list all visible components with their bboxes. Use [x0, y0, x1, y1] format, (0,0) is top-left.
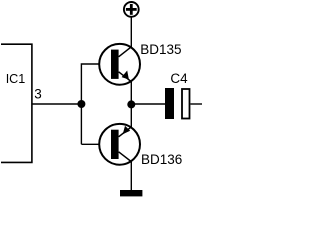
wire : BD135 emitter down to output node and BD136: [130, 81, 132, 128]
wire : +V to BD135 collector: [130, 17, 132, 48]
wire : junction up to BD135 base: [81, 64, 98, 144]
transistor Q2 BD136 (PNP): [99, 124, 140, 165]
power +V symbol: [124, 2, 139, 17]
wire : junction down to BD136 base: [81, 143, 98, 145]
transistor Q1 BD135 (NPN): [99, 44, 140, 85]
wire : IC1 pin 3 to base junction: [32, 103, 82, 105]
capacitor C4 (polarized): [165, 88, 190, 119]
IC IC1 (box, open left edge): [1, 44, 32, 162]
svg-text:3: 3: [34, 86, 42, 101]
svg-text:BD136: BD136: [141, 152, 182, 167]
ground: [120, 190, 142, 196]
node B : output junction dot: [127, 100, 135, 108]
wire : BD136 collector to ground: [130, 161, 132, 191]
wire : output node to C4: [131, 103, 165, 105]
node A : base junction dot: [77, 100, 85, 108]
wire : C4 to right edge: [191, 103, 203, 105]
svg-text:C4: C4: [170, 71, 188, 86]
svg-text:BD135: BD135: [140, 42, 181, 57]
svg-text:IC1: IC1: [6, 72, 26, 86]
